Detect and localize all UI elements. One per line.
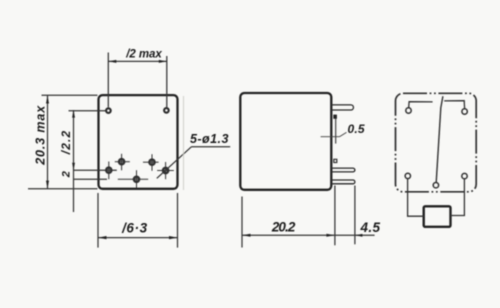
coil winding box: [424, 206, 451, 227]
leader + label 0.5: [321, 132, 347, 136]
pin hole A (bottom-left): [106, 162, 111, 180]
svg-text:4.5: 4.5: [360, 220, 381, 235]
mounting hole top-left: [106, 108, 111, 113]
mounting hole top-right: [164, 108, 169, 113]
terminal top-left: [406, 108, 411, 113]
svg-text:20.2: 20.2: [271, 220, 296, 235]
lower terminal pin 2 (side view): [331, 180, 355, 184]
dimension 2 (left, hole row offset): [74, 170, 117, 179]
svg-text:0.5: 0.5: [348, 122, 365, 136]
svg-text:20.3 max: 20.3 max: [34, 105, 48, 166]
small pin stub notch: [334, 159, 337, 162]
pin hole B: [115, 154, 130, 171]
dimension 16.3 (bottom): [98, 193, 178, 248]
terminal bottom-right: [462, 173, 467, 178]
relay body outline (side view): [240, 93, 331, 190]
terminal bottom-left: [405, 173, 410, 178]
wire from bottom-left terminal to coil: [408, 179, 424, 217]
svg-text:/2.2: /2.2: [59, 130, 73, 155]
dimension 20.2 (bottom of side view): [242, 186, 335, 248]
case outline (bottom view, phantom line): [396, 93, 477, 192]
contact arm from top-right terminal: [444, 101, 464, 109]
pin hole C (bottom-center): [118, 170, 148, 188]
top terminal pin (side view): [331, 105, 353, 110]
pin hole D: [143, 154, 159, 171]
dimension 12 max (top): [108, 53, 167, 108]
dimension 4.5 (pin length): [335, 186, 375, 245]
dimension 20.3 max (left): [28, 95, 98, 189]
svg-text:/2 max: /2 max: [125, 48, 162, 60]
svg-text:2: 2: [61, 171, 73, 178]
flat pin seen edge-on (0.5 thick): [333, 115, 337, 119]
svg-text:5-ø1.3: 5-ø1.3: [190, 132, 229, 146]
wire from bottom-right terminal to coil: [451, 179, 465, 216]
relay body outline (front view): [99, 95, 178, 189]
switch armature (common): [436, 96, 443, 182]
contact arm from top-left terminal: [409, 102, 433, 108]
dimension 12.2 (left inner): [69, 110, 106, 212]
svg-text:/6·3: /6·3: [121, 221, 147, 236]
terminal common (bottom-center): [433, 183, 438, 188]
terminal top-right: [462, 109, 467, 114]
pin hole E (bottom-right): [157, 162, 174, 179]
lower terminal pin 1 (side view): [331, 168, 355, 172]
scan ghost line (artifact): [183, 96, 185, 190]
